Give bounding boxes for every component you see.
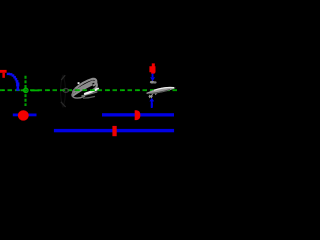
wing W1 hair ticks xyxy=(152,93,156,96)
mini slider track T2 (blue, bottom-left) xyxy=(13,114,37,117)
scribble coil S1 bottom tail xyxy=(82,92,97,96)
slider tick B1 (blue, above track T3) xyxy=(151,103,153,107)
object handle T1 (red T, top-left) xyxy=(0,70,7,78)
lens L1 center bracket xyxy=(63,89,69,93)
mini slider knob K1 (red ellipse) xyxy=(18,110,29,120)
image flag F1 (red, right) xyxy=(149,63,155,73)
scribble coil S1 left curls xyxy=(71,88,84,99)
beam waist vertical dashed line xyxy=(24,76,26,106)
down arrow A2 (blue, above axis right) xyxy=(152,74,154,78)
up arrow A3 (blue, below axis right) xyxy=(151,101,153,108)
axis dash between arrow tip and waist circle xyxy=(21,89,24,91)
wing W1 (gray curved stroke over axis, right) xyxy=(146,87,176,94)
slider track T4 (blue, bottom) xyxy=(54,129,174,132)
smudge G1 (gray, on axis below arrow A2) xyxy=(150,81,155,84)
scribble coil S1 white specks xyxy=(78,82,80,84)
scribble coil S1 white highlight stroke xyxy=(85,89,98,94)
waist marker circle xyxy=(24,88,28,92)
optical axis (green dashed horizontal) xyxy=(0,89,180,91)
lens L1 (faint dark biconvex outline at x=63) xyxy=(61,75,66,108)
wing W1 top highlight xyxy=(154,87,174,90)
axis long bright dash near waist xyxy=(31,90,39,92)
optical axis brighter dashes xyxy=(2,89,180,91)
slider track T3 (blue, top-right) xyxy=(102,113,174,116)
wing W1 dark underside xyxy=(148,90,170,94)
lens L1 tip highlights xyxy=(61,75,66,107)
asterisk G2 (gray, below axis right) xyxy=(149,95,153,98)
slider handle K2 (red pointer on track T3) xyxy=(135,110,141,120)
slider handle K3 (red tick on track T4) xyxy=(112,126,116,136)
scribble coil S1 (gray twisted strands) xyxy=(71,78,98,95)
curved drag arrow A1 (blue stepped curve) xyxy=(7,73,20,91)
